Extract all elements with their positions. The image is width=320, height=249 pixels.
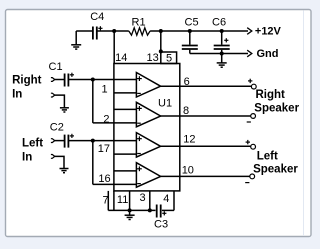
svg-text:2: 2 [103, 113, 109, 125]
svg-text:In: In [22, 152, 32, 164]
svg-text:U1: U1 [158, 97, 172, 109]
capacitor C5 [182, 31, 198, 54]
wire C2 to pin 17 [68, 140, 136, 142]
svg-text:11: 11 [117, 194, 128, 206]
input port chevron Right In signal [51, 78, 55, 82]
ground (C6 ground) [217, 54, 227, 68]
capacitor C3 [157, 205, 167, 218]
op-amp A3 triangle [136, 133, 160, 158]
svg-text:1: 1 [102, 84, 108, 96]
wire branch down to pin 16 [92, 141, 94, 185]
input port chevron Left In signal [51, 139, 55, 143]
terminal circle pin 10 [250, 174, 255, 179]
svg-text:7: 7 [103, 194, 109, 206]
svg-text:C1: C1 [49, 61, 63, 73]
wire ground to C4 [76, 30, 92, 32]
wire ground rail [190, 53, 248, 55]
wire Left In to C2 [55, 140, 64, 142]
svg-text:10: 10 [182, 165, 194, 177]
resistor R1 [129, 28, 150, 35]
svg-text:13: 13 [147, 52, 159, 64]
wire pin 13/5 drop [160, 31, 162, 52]
svg-text:C2: C2 [50, 122, 64, 134]
wire Right In ground [55, 95, 65, 107]
wire supply to C5 [161, 30, 190, 32]
svg-text:Right: Right [256, 89, 286, 101]
svg-text:R1: R1 [132, 16, 146, 28]
wire amp4 non-inverting stub [114, 170, 136, 172]
plus mark right speaker [248, 79, 252, 83]
svg-text:12: 12 [183, 134, 195, 146]
wire pin 16 [93, 183, 137, 185]
op-amp A1 triangle [136, 73, 160, 98]
wire R1 to supply node [150, 30, 161, 32]
wire supply to C6 [190, 30, 222, 32]
svg-text:Right: Right [12, 74, 42, 86]
ground (IC bottom) [125, 210, 135, 219]
capacitor C6 [214, 31, 230, 54]
svg-text:Gnd: Gnd [257, 48, 279, 60]
wire amp1 inverting stub [114, 92, 136, 94]
node supply junction at pin 13/5 [159, 29, 163, 33]
node C2 junction [91, 139, 95, 143]
svg-text:5: 5 [166, 53, 172, 65]
wire Left In ground [55, 156, 64, 168]
terminal circle pin 6 [251, 84, 256, 89]
svg-text:Left: Left [22, 138, 43, 150]
wire pin 6 output [161, 85, 252, 87]
node junction pin 3 [148, 208, 152, 212]
ground (Left In) [60, 169, 69, 173]
op-amp U1 IC body [114, 64, 180, 191]
input port chevron Left In ground [51, 155, 55, 159]
svg-text:4: 4 [163, 193, 169, 205]
node pin14 junction [112, 29, 116, 33]
node C5 junction [188, 29, 192, 33]
wire amp2 non-inverting stub [114, 108, 136, 110]
svg-text:Speaker: Speaker [253, 164, 298, 176]
svg-text:Left: Left [257, 150, 278, 162]
node C1 junction [91, 78, 95, 82]
svg-text:In: In [12, 88, 22, 100]
capacitor C4 [93, 26, 103, 39]
svg-text:17: 17 [98, 143, 110, 155]
wire pin 12 output [161, 145, 251, 147]
svg-text:C5: C5 [185, 17, 199, 29]
wire branch down to pin 2 [92, 80, 94, 123]
svg-text:6: 6 [184, 76, 190, 88]
minus mark right speaker [247, 121, 251, 123]
svg-text:16: 16 [98, 173, 110, 185]
svg-text:8: 8 [183, 105, 189, 117]
wire pin 2 [93, 122, 137, 124]
plus mark left speaker [246, 140, 250, 144]
node at pin 5 box [159, 49, 163, 53]
terminal circle pin 12 [251, 144, 256, 149]
op-amp A4 triangle [136, 163, 160, 188]
capacitor C2 [65, 134, 74, 148]
svg-text:3: 3 [140, 192, 146, 204]
svg-text:C4: C4 [90, 11, 104, 23]
Gnd arrow [247, 50, 252, 57]
svg-text:14: 14 [115, 52, 127, 64]
ground (C4 input ground) [71, 31, 81, 49]
capacitor C1 [65, 73, 74, 87]
wire C1 to pin 1 [68, 79, 136, 81]
pin row box bottom [108, 191, 174, 211]
wire node to R1 [114, 30, 129, 32]
svg-text:+12V: +12V [255, 25, 282, 37]
wire Right In to C1 [55, 79, 64, 81]
node ground junction pin 11 [128, 208, 132, 212]
svg-text:C6: C6 [212, 17, 226, 29]
faint column divider [303, 11, 305, 237]
wire C4 to node of pin 14 [97, 30, 114, 32]
pin 5 box [161, 52, 177, 64]
wire pin 8 output [161, 115, 251, 117]
wire +12V supply arrow [222, 28, 252, 35]
terminal circle pin 8 [251, 114, 256, 119]
op-amp A2 triangle [136, 102, 160, 127]
ground (Right In) [60, 108, 69, 112]
wire pin 14 drop [113, 31, 115, 64]
svg-text:Speaker: Speaker [254, 102, 299, 114]
svg-text:C3: C3 [154, 219, 168, 231]
node C6 ground junction [220, 52, 224, 56]
input port chevron Right In ground [51, 93, 55, 97]
node C6 junction [220, 29, 224, 33]
wire amp3 inverting stub [114, 153, 136, 155]
minus mark left speaker [245, 182, 249, 184]
wire pin 10 output [161, 175, 250, 177]
